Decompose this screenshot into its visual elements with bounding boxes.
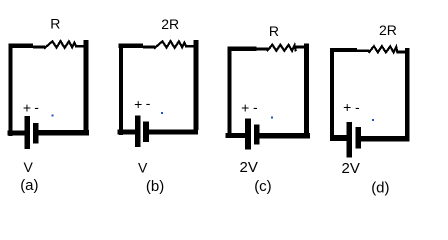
battery V (b) bbox=[135, 115, 149, 147]
stray ink dot (d) bbox=[372, 119, 374, 121]
battery V (a) bbox=[25, 116, 39, 149]
resistor R (c) zigzag bbox=[268, 45, 296, 51]
wire: top thin segment (d) bbox=[357, 49, 369, 52]
svg-text:(a): (a) bbox=[20, 177, 38, 194]
svg-text:2R: 2R bbox=[379, 22, 397, 38]
svg-text:-: - bbox=[355, 99, 360, 115]
svg-text:-: - bbox=[146, 95, 151, 111]
wire: top left thick segment (b) bbox=[119, 43, 143, 47]
stray ink dot (b) bbox=[161, 112, 163, 114]
stray ink dot (c) bbox=[271, 117, 273, 119]
wire: resistor right lead (a) bbox=[75, 45, 84, 47]
wire: resistor right lead (c) bbox=[296, 46, 305, 49]
wire: left side (b) bbox=[119, 45, 123, 135]
svg-text:(b): (b) bbox=[146, 178, 164, 195]
wire: left side (d) bbox=[330, 49, 334, 141]
wire: resistor right lead (d) bbox=[397, 51, 405, 54]
svg-text:R: R bbox=[269, 23, 279, 39]
svg-text:+: + bbox=[241, 99, 249, 115]
wire: top left thick segment (a) bbox=[9, 43, 33, 47]
resistor 2R (d) zigzag bbox=[369, 46, 397, 52]
wire: top left thick segment (c) bbox=[227, 47, 256, 52]
wire: right side (b) bbox=[194, 40, 199, 130]
resistor R (a) zigzag bbox=[45, 41, 76, 48]
svg-text:R: R bbox=[50, 16, 60, 32]
wire: bottom right (c) bbox=[260, 133, 310, 138]
svg-text:(d): (d) bbox=[371, 179, 389, 196]
svg-text:V: V bbox=[138, 160, 148, 176]
wire: left side (a) bbox=[9, 45, 13, 136]
wire: bottom right (a) bbox=[38, 130, 89, 135]
battery 2V (c) bbox=[245, 119, 259, 150]
svg-text:-: - bbox=[34, 99, 39, 115]
svg-text:V: V bbox=[24, 159, 34, 175]
wire: bottom left (b) bbox=[118, 130, 135, 135]
svg-text:+: + bbox=[23, 99, 31, 115]
svg-text:+: + bbox=[343, 99, 351, 115]
battery 2V (d) bbox=[347, 122, 362, 157]
wire: bottom right (d) bbox=[361, 136, 410, 142]
wire: right side (a) bbox=[84, 40, 89, 131]
resistor 2R (b) zigzag bbox=[155, 41, 186, 48]
wire: right side (d) bbox=[405, 48, 410, 136]
wire: top thin segment (a) bbox=[33, 46, 45, 49]
svg-text:2V: 2V bbox=[342, 160, 360, 177]
wire: bottom left (c) bbox=[226, 133, 246, 138]
wire: resistor right lead (b) bbox=[185, 45, 194, 47]
wire: left side (c) bbox=[227, 48, 231, 138]
wire: bottom left (a) bbox=[8, 130, 25, 135]
svg-text:+: + bbox=[134, 96, 142, 112]
svg-text:-: - bbox=[253, 99, 258, 115]
wire: top thin segment (b) bbox=[143, 46, 155, 49]
wire: top thin segment (c) bbox=[257, 48, 269, 51]
svg-text:(c): (c) bbox=[254, 178, 272, 195]
wire: bottom right (b) bbox=[148, 130, 198, 135]
svg-text:2R: 2R bbox=[161, 16, 179, 32]
svg-text:2V: 2V bbox=[240, 159, 258, 176]
wire: top left thick segment (d) bbox=[330, 48, 357, 52]
wire: bottom left (d) bbox=[330, 135, 347, 141]
stray ink dot (a) bbox=[51, 114, 53, 116]
wire: right side (c) bbox=[304, 44, 309, 134]
